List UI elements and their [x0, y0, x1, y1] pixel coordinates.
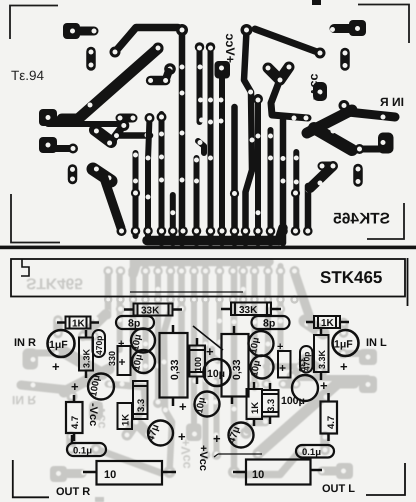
corner bracket bottom-right (top half)	[367, 203, 404, 239]
svg-text:0,33: 0,33	[169, 359, 181, 380]
module inner line	[130, 291, 243, 293]
svg-text:3.3K: 3.3K	[317, 349, 327, 369]
svg-text:330: 330	[107, 351, 117, 366]
wire pointer from +Vcc	[214, 454, 262, 457]
capacitor C-0.1u right	[296, 445, 334, 458]
copper side (top half), black	[39, 0, 404, 243]
wire jumper diagonal center	[193, 326, 223, 350]
capacitor C-100u right	[292, 375, 328, 401]
resistor R-4.7 right (vertical)	[321, 393, 338, 441]
svg-text:100: 100	[193, 357, 203, 372]
module pin tip pads	[104, 295, 299, 303]
capacitor C-100u left	[71, 374, 114, 400]
svg-text:3.3: 3.3	[266, 399, 277, 412]
resistor R-4.7 left (vertical)	[66, 395, 83, 441]
pin 1 key notch	[21, 259, 29, 276]
corner bracket bottom-right (bottom half)	[366, 463, 405, 495]
resistor R-1K right lower (vertical)	[247, 382, 263, 426]
divider line	[0, 246, 416, 250]
capacitor C-10u center upper	[204, 359, 231, 386]
capacitor C-8p right	[252, 316, 290, 330]
svg-text:10: 10	[104, 469, 116, 481]
capacitor C-47u left	[145, 421, 186, 446]
capacitor C-10u left a	[130, 329, 155, 353]
capacitor C-8p left	[116, 316, 154, 330]
resistor R-3.3K left (vertical)	[79, 330, 93, 378]
svg-text:1μF: 1μF	[334, 339, 353, 351]
resistor R-10 right	[233, 460, 322, 485]
resistor R-3.3 right (vertical)	[262, 383, 279, 424]
svg-text:+Vcc: +Vcc	[197, 445, 209, 471]
gap cleanup above module	[0, 249, 416, 258]
svg-text:OUT R: OUT R	[56, 486, 90, 498]
svg-text:+: +	[213, 431, 221, 446]
svg-text:+: +	[178, 429, 186, 444]
resistor R-33K right	[221, 303, 281, 317]
svg-text:3.3: 3.3	[136, 399, 147, 412]
svg-text:+: +	[340, 359, 348, 374]
capacitor C-10u right a	[248, 331, 273, 356]
resistor R-1K left	[57, 317, 99, 330]
corner bracket bottom-left (top half)	[11, 194, 60, 243]
svg-text:1K: 1K	[321, 318, 335, 329]
svg-text:+: +	[179, 399, 187, 414]
svg-text:1K: 1K	[121, 414, 132, 426]
corner mark top-right (bottom half)	[407, 258, 409, 306]
svg-text:+: +	[52, 359, 60, 374]
op-amp module STK465 outline	[11, 259, 405, 297]
svg-text:+: +	[118, 338, 124, 350]
capacitor C-0.1u left	[67, 435, 106, 457]
svg-text:IN R: IN R	[14, 337, 36, 349]
svg-text:0.1μ: 0.1μ	[73, 446, 92, 457]
svg-text:470p: 470p	[94, 336, 104, 355]
svg-text:STK465: STK465	[320, 268, 382, 287]
svg-text:330: 330	[297, 357, 307, 372]
resistor R-330 right (vertical)	[277, 341, 307, 378]
svg-text:8p: 8p	[263, 318, 275, 330]
resistor R-0.33 right (vertical)	[222, 326, 249, 404]
svg-text:OUT L: OUT L	[322, 483, 355, 495]
resistor R-10 left	[83, 461, 176, 485]
resistor R-1K left lower (vertical)	[118, 403, 133, 429]
svg-text:-Vcc: -Vcc	[87, 403, 99, 426]
svg-text:10: 10	[252, 469, 264, 481]
capacitor C-470p right (vertical)	[300, 346, 313, 373]
svg-text:IN L: IN L	[366, 337, 387, 349]
capacitor C-1uF right	[333, 330, 359, 374]
resistor R-0.33 left (vertical)	[160, 325, 188, 406]
corner bracket top-right	[358, 5, 409, 44]
svg-text:1μF: 1μF	[49, 339, 68, 351]
svg-text:+: +	[320, 378, 328, 393]
corner bracket bottom-left (bottom half)	[13, 460, 49, 497]
svg-text:+: +	[206, 344, 214, 359]
svg-text:1K: 1K	[72, 319, 86, 330]
resistor R-1K right	[306, 316, 349, 329]
resistor R-3.3 left (vertical)	[133, 381, 148, 419]
svg-text:0,33: 0,33	[231, 359, 243, 380]
svg-text:+: +	[71, 379, 79, 394]
capacitor C-1uF left	[48, 330, 75, 374]
capacitor C-10u left b	[131, 350, 155, 373]
svg-text:+: +	[119, 355, 126, 369]
svg-text:+: +	[279, 361, 286, 375]
svg-text:4.7: 4.7	[326, 416, 337, 429]
svg-text:33K: 33K	[141, 306, 160, 317]
corner bracket top-left	[10, 6, 58, 40]
capacitor C-10u center lower	[194, 392, 219, 417]
resistor R-3.3K right (vertical)	[314, 328, 329, 380]
svg-text:33K: 33K	[239, 305, 258, 316]
svg-text:8p: 8p	[128, 318, 140, 330]
capacitor C-470p left (vertical)	[93, 330, 106, 357]
capacitor C-10u right b	[249, 356, 273, 379]
svg-text:0.1μ: 0.1μ	[302, 447, 321, 458]
component side underlay (bottom half), gray = pattern rotated 180	[12, 259, 377, 502]
resistor R-330 left (vertical)	[107, 338, 131, 375]
capacitor C-47u right	[213, 423, 254, 448]
svg-text:Tε.94: Tε.94	[11, 68, 45, 83]
resistor R-100 center (vertical)	[190, 338, 206, 384]
svg-text:1K: 1K	[250, 402, 261, 414]
svg-text:3.3K: 3.3K	[82, 348, 92, 368]
resistor R-33K left	[124, 304, 182, 317]
svg-text:4.7: 4.7	[70, 416, 81, 429]
